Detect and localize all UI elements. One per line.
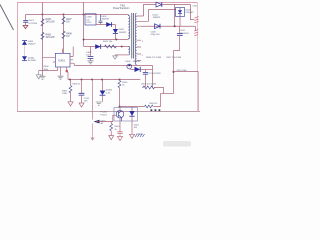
label D409 [126,61,141,63]
svg-text:1M: 1M [66,36,69,38]
optocoupler PC401 [101,107,138,122]
svg-text:R416 4.7k 1/4W: R416 4.7k 1/4W [146,57,161,59]
capacitor C409 [86,47,93,61]
svg-text:1N4148: 1N4148 [133,61,141,63]
wire x=92 lower [92,123,94,138]
wire y=9.8 [149,10,176,22]
rail1 y=65.3 [74,65,152,67]
wire rail1 corner down [152,66,154,88]
wire LED cathode [131,116,133,134]
resistor R415 [142,84,156,89]
diode D405 [113,29,127,40]
wire x=92 feedback [91,79,93,120]
svg-text:D405: D405 [119,29,125,31]
ground (IC401 pin) [58,67,64,79]
ground arrow (R420) [109,136,114,140]
resistor R420 [110,121,121,135]
resistor R418 [145,103,159,108]
wire y=71.8 [174,71,199,73]
junction squares bottom [151,109,153,111]
wire x=173.8 [173,51,175,94]
svg-text:0.22/250: 0.22/250 [29,23,38,25]
wire corner to +out [191,5,195,20]
resistor R411 [103,41,116,48]
svg-text:D403: D403 [186,9,192,11]
svg-text:275V: 275V [86,22,92,24]
junction dot rail1 [129,65,131,67]
ground arrow (R409) [68,102,73,106]
wire y=106.5 [120,94,161,107]
svg-text:D404: D404 [153,15,159,17]
svg-text:1M: 1M [66,22,69,24]
svg-text:C410: C410 [180,30,186,32]
border frame right [197,2,199,111]
transistor Q403 collector stub [119,107,121,111]
wire y=46.3 [84,46,128,48]
svg-text:R405: R405 [46,19,52,21]
svg-text:BL203B: BL203B [28,60,36,62]
wire emitter down [119,118,121,132]
junction dot [173,71,175,73]
ground (C407) [23,25,28,28]
capacitor C417 [117,132,122,137]
wire to C411 [140,69,152,71]
connector hatch 2 [194,30,198,36]
svg-text:1N4937: 1N4937 [119,32,127,34]
svg-text:R411 10k: R411 10k [103,41,113,43]
transformer T401 secondary winding [135,13,136,64]
wire x=195.3 stub [195,26,197,31]
svg-text:R408: R408 [66,33,72,35]
svg-text:R409 1k: R409 1k [73,83,82,85]
svg-text:C413: C413 [84,98,90,100]
junction dot [42,14,44,16]
wire y=26.2 [141,25,195,27]
svg-text:D401: D401 [101,16,107,18]
op-amp IC401 [53,47,74,80]
wire y=70.6 [39,70,58,72]
svg-text:C411 47/16V: C411 47/16V [149,73,162,75]
connector hatch 1 [195,17,199,23]
svg-text:R409: R409 [62,91,68,93]
wire IC left [43,57,53,59]
ground arrow (C413) [79,103,84,107]
ground arrow (C417) [117,137,122,141]
watermark [163,141,191,147]
capacitor C411 [143,70,162,88]
diode D410 [129,67,140,72]
wire vertical x=63.3 [63,15,65,54]
capacitor C407 [23,15,38,26]
wire aux bottom [115,54,128,56]
svg-text:R420: R420 [115,126,121,128]
ground arrow (LED) [130,134,135,138]
wire vertical x=42.5 [42,3,44,77]
diode D401 [106,22,111,27]
svg-text:T401: T401 [120,5,126,7]
diagonal scan mark [0,5,14,31]
ground arrow (left) [36,71,41,79]
transformer T401 primary winding [128,15,129,40]
chassis ground [135,134,145,137]
svg-text:1M 1/2W: 1M 1/2W [46,37,56,39]
svg-text:C408: C408 [86,17,92,19]
svg-text:R418 1k: R418 1k [150,103,159,105]
junction squares bottom [155,109,157,111]
svg-text:5.1V: 5.1V [106,92,111,94]
wire AC branch [24,45,26,56]
wire sec top right [162,4,191,6]
svg-text:C418: C418 [134,125,140,127]
svg-text:1N4007: 1N4007 [28,44,36,46]
junction dot [63,14,65,16]
value label C406 [151,31,161,36]
capacitor C412 [99,15,110,25]
wire D403 down [179,17,181,27]
zener ZD402 [100,79,113,102]
svg-text:UF5402: UF5402 [186,12,195,14]
rail2 y=79 [68,79,140,81]
diode ZD401 [22,56,36,62]
border frame bottom [17,111,200,113]
svg-text:PC817: PC817 [101,114,108,116]
wire sec top [144,5,157,17]
wire right edge [198,72,200,111]
resistor R405 [41,19,55,26]
ground (ZD402) [96,102,102,105]
svg-text:C414 100n: C414 100n [177,70,188,72]
diode D406 [22,40,36,45]
ground (C409) [88,61,94,64]
junction dot [174,25,176,27]
capacitor C408 box [85,14,96,25]
svg-text:C409: C409 [86,52,92,54]
border frame left [17,3,19,112]
wire L rail y=14.5 [26,14,129,16]
svg-text:R415 470 1/2W: R415 470 1/2W [142,84,156,86]
ground arrow (aux) [113,56,118,59]
svg-text:1N4937: 1N4937 [101,19,109,21]
transformer T401 core [132,13,134,59]
transformer T401 aux winding [128,47,130,55]
node arrow feedback [94,120,107,125]
wire y=93.2 [161,93,174,95]
svg-text:1M 1/2W: 1M 1/2W [46,22,56,24]
resistor R409 [62,79,81,102]
diode D408 [95,44,101,49]
ground (x42.5) [40,76,46,79]
svg-text:PowerTransform: PowerTransform [113,7,130,10]
pin stub sec1 [137,16,149,61]
transformer T401 label [113,5,130,10]
wire vertical x=83.5 [83,2,85,46]
junction dot [83,39,85,41]
svg-text:C406: C406 [151,31,157,33]
svg-text:PC401: PC401 [101,112,108,114]
svg-text:0.1/: 0.1/ [86,19,90,21]
wire vert x=174.6 [174,5,176,27]
wire to opto base [96,115,116,121]
resistor R407 [62,17,72,24]
wire R415 right [154,88,164,94]
diode D404 [153,15,161,29]
svg-text:1/4W: 1/4W [62,93,67,95]
svg-text:R407: R407 [66,19,72,21]
svg-text:R406: R406 [46,34,52,36]
wire y=39.3 [84,39,129,41]
border frame top [17,2,197,4]
diode D402 [156,2,162,7]
svg-text:ZD401: ZD401 [28,57,35,59]
resistor R410 [118,79,128,108]
junction squares bottom [159,109,161,111]
svg-text:D409: D409 [126,61,132,63]
capacitor C410 [174,26,190,50]
capacitor C413 [79,79,90,103]
resistor R408 [62,31,72,39]
wire y=24.8 [96,24,115,26]
resistor R406 [41,32,55,39]
junction dot [83,14,85,16]
value label R422 [134,125,140,130]
svg-text:ZD402: ZD402 [106,90,113,92]
junction dot [121,46,123,48]
svg-text:IC401: IC401 [58,58,65,62]
svg-text:470p 1kV: 470p 1kV [151,34,161,36]
svg-text:R410: R410 [122,82,128,84]
diode D403 (boxed) [176,7,194,16]
transistor Q402 [127,64,132,69]
svg-text:1N5822: 1N5822 [153,17,161,19]
svg-text:D406: D406 [28,41,34,43]
junction dot [116,39,118,41]
node end arrow [90,138,94,141]
wire corner [114,25,116,30]
